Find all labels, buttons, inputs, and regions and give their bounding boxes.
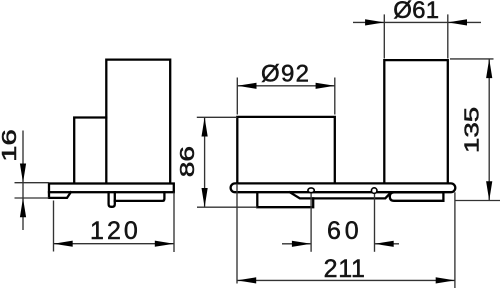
svg-text:Ø92: Ø92: [261, 60, 309, 87]
svg-text:135: 135: [461, 107, 483, 153]
svg-text:Ø61: Ø61: [393, 0, 439, 24]
svg-text:211: 211: [324, 255, 365, 283]
svg-text:16: 16: [0, 129, 21, 162]
svg-text:86: 86: [177, 146, 199, 177]
svg-text:120: 120: [90, 217, 138, 245]
